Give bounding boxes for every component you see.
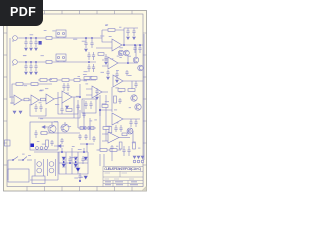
wire left vertical link [9,38,11,98]
node junction [85,37,87,39]
resistor R8 [84,77,90,80]
diode D2 [42,126,48,129]
resistor R12b [41,98,46,101]
node junction [30,37,31,38]
resistor R2 [46,61,52,64]
resistor R27 [66,109,72,112]
ground [105,62,108,64]
transistor Q9 [138,65,144,71]
resistor R1 [46,37,52,40]
wire U2B in [86,89,92,95]
diode D4 [62,164,65,167]
resistor R29 [119,142,122,149]
node junction [134,44,136,46]
resistor R25 [80,127,86,130]
wire u2a feedback [58,92,78,114]
capacitor C11 [87,64,90,72]
wire mid vertical b [105,95,107,141]
page curl corner [142,186,147,191]
capacitor C9 [87,52,90,60]
wire U6 out [123,118,140,120]
node junction [127,62,129,64]
ground [127,37,130,39]
ground [133,156,136,158]
sub box2 [32,176,45,184]
wire bus1 [22,37,96,39]
capacitor C23 [129,119,132,127]
ground [25,48,28,50]
capacitor C6 [34,62,37,71]
capacitor C46 [134,81,137,88]
diode D1 [54,145,64,148]
wire feedback top [12,84,52,104]
wire U2B out [102,91,108,93]
wire right bus [143,34,145,120]
transistor Q3 [131,95,137,101]
node junction [83,127,85,129]
capacitor C35 [110,145,113,151]
wire stage4 [100,110,112,116]
capacitor C20 [132,28,135,36]
resistor R9 [91,77,97,80]
capacitor C15 [62,83,65,91]
wire left col a [77,100,79,128]
capacitor C42 [138,45,141,53]
op-amp U3 [112,39,122,51]
diode D8 [84,176,87,179]
capacitor C4 [24,62,27,71]
ground [19,111,22,114]
node junction [91,37,92,38]
diode D6 [74,164,77,167]
resistor R10 [16,83,23,86]
ground [35,48,38,50]
resistor R22 [100,149,107,152]
pad P3 [45,147,48,150]
wire U5 link down [111,87,113,112]
wire U4 in [102,60,108,66]
capacitor C40 [92,136,95,142]
resistor R30 [133,142,136,149]
bridge frame [59,152,88,174]
PDF badge [0,0,43,26]
ferrite bead FB1 [39,41,42,45]
ground [35,72,38,74]
title block [103,167,143,187]
pad P2 [40,147,43,150]
ground [66,106,69,109]
diode D5 [74,157,77,160]
wire bus2 [22,61,96,63]
op-amp U7 [108,132,119,143]
wire mid low [34,151,88,153]
transistor Q4 [135,104,141,110]
connector J2 [13,60,18,65]
wire U1A in [10,97,14,103]
relay K2 [56,54,66,62]
resistor R17 [128,89,135,92]
resistor R23 [110,149,117,152]
opto O2 [48,159,56,176]
wire U3 out up [122,28,143,45]
wire lower bus [40,132,80,134]
transistor Q5 [48,125,56,133]
capacitor C3 [34,38,37,47]
resistor R11 [31,83,38,86]
ground [30,72,33,74]
wire q stubs [129,45,138,63]
transistor Q8 [133,57,139,63]
diode D3 [62,157,65,160]
border tick marks [4,11,147,192]
capacitor C10 [92,52,95,60]
lower-left box [30,122,58,150]
node junction [139,44,141,46]
capacitor C30 [78,173,81,181]
op-amp U2A [62,91,72,103]
ground [133,37,136,39]
capacitor C24 [134,119,137,127]
node junction [123,44,125,46]
inner border frame [7,14,143,187]
capacitor C43 [106,70,109,76]
ground [137,156,140,158]
svg-text:CUBUSPEAKERPCB(C16+C): CUBUSPEAKERPCB(C16+C) [104,167,141,171]
wire U2A out [72,84,80,97]
transistor Q6 [61,124,69,132]
capacitor C2 [29,38,32,47]
capacitor C26 [34,130,37,138]
wire left col low [80,144,94,152]
capacitor C48 [104,54,107,61]
pad P1 [36,147,39,150]
resistor R4 [40,79,47,82]
capacitor C25 [60,138,63,144]
capacitor C8 [90,38,93,48]
sheet background [4,11,147,192]
node junction [86,143,88,145]
node junction [99,109,100,110]
resistor R31 [122,133,127,136]
sub box [82,99,96,113]
wire U1A out [22,99,31,101]
capacitor C37 [82,112,85,118]
ground [25,72,28,74]
node junction [35,37,36,38]
wire U3 in [96,38,112,48]
resistor R5 [50,79,57,82]
relay K1 [56,30,66,38]
wire U5 out [123,81,143,90]
wire bottom loop [38,110,80,118]
op-amp U4 [108,57,118,69]
wire U7 in [102,134,108,141]
opto O1 [35,159,44,176]
capacitor C39 [84,134,87,140]
capacitor C29 [81,156,84,164]
value labels [22,24,140,178]
resistor R20 [41,132,47,135]
wire U7 out [119,137,130,139]
wire low bottom [30,152,58,180]
ground [85,49,88,51]
op-amp U5 [113,75,123,87]
capacitor C21 [115,71,118,79]
wire u2a down [62,97,74,118]
pad P5 [137,160,140,163]
capacitor C16 [66,83,69,91]
wire mid band [38,79,96,81]
resistor R26 [88,127,94,130]
label box left [5,140,11,146]
node junction [79,96,81,98]
resistor R14 [108,29,115,32]
wire bridge mid [59,162,88,164]
capacitor C5 [29,62,32,71]
capacitor C45 [60,106,63,114]
transistor Q7 [127,128,133,134]
node junction [83,151,85,153]
capacitor C14 [39,104,42,112]
transistor Q1 [118,50,124,56]
wire q7 link [127,131,133,142]
op-amp U1B [31,95,39,105]
node junction [75,161,77,163]
node junction [63,161,65,163]
ground [107,77,110,79]
node junction [89,127,91,129]
resistor R12 [24,98,29,101]
op-amp U1A [14,95,22,105]
op-amp U1C [46,94,54,104]
switch S1 [8,157,23,161]
ground [96,97,99,99]
wire bridge stubs [62,148,84,152]
resistor R15 [98,53,104,56]
capacitor C32 [127,146,130,156]
pad P4 [133,160,136,163]
ground [13,111,16,114]
resistor R19 [109,127,112,133]
resistor R18 [102,105,108,108]
node junction [99,109,101,111]
capacitor C47 [118,98,121,104]
wire sub loop [30,104,46,116]
diode D7 [76,168,80,171]
transistor Q2 [124,50,130,56]
wire U4 out [118,56,128,63]
capacitor C17 [84,101,87,109]
op-amp U6 [112,113,123,125]
node junction [61,151,63,153]
resistor R13 [81,76,83,78]
resistor R28 [114,96,117,103]
node junction [35,61,36,62]
resistor R21 [46,140,49,147]
capacitor C36 [76,104,79,110]
wire u7 down [111,151,113,161]
wire left col b [83,100,85,128]
node junction [30,61,31,62]
resistor R7 [74,79,80,82]
node junction [88,61,90,63]
capacitor C31 [122,146,125,156]
wire left col bus [78,127,96,129]
capacitor C38 [78,134,81,140]
capacitor C27 [50,140,53,146]
wire right low [143,120,145,160]
diode D9 [84,157,87,160]
wire mid vertical a [99,95,101,150]
wire U1B out [39,99,46,101]
title block row labels [105,181,138,185]
capacitor C22 [95,88,98,96]
ground [116,80,119,82]
capacitor C18 [89,101,92,109]
note box [8,169,29,182]
node junction [79,180,81,182]
capacitor C12 [92,64,95,72]
wire fb [102,30,124,38]
resistor R16 [118,89,125,92]
LED DS1 [31,144,35,148]
switch S2 [22,157,32,161]
capacitor C1 [24,38,27,47]
connector J1 [13,36,18,41]
capacitor C34 [119,125,122,132]
resistor R6 [62,79,69,82]
capacitor C44 [125,70,128,76]
node junction [25,61,26,62]
op-amp U2B [92,86,102,98]
capacitor C7 [84,38,87,48]
pad P6 [141,160,144,163]
capacitor C28 [68,156,71,164]
wire to title [100,154,104,166]
wire q5 stubs [52,122,65,127]
wire left col c [89,118,91,140]
wire U1C out [54,97,62,99]
capacitor C33 [114,125,117,132]
wire bridge verticals [66,152,78,174]
node junction [69,162,71,164]
node junction [25,37,26,38]
ground [141,156,144,158]
ground [30,48,33,50]
wire r chain [98,149,121,151]
capacitor C13 [34,104,37,112]
resistor R24 [103,127,109,130]
capacitor C41 [133,45,136,53]
capacitor C19 [126,28,129,36]
wire left low vertical [7,160,9,180]
